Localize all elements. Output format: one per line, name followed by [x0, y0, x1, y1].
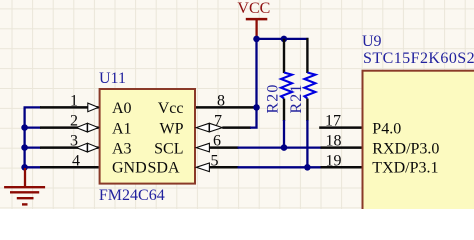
junction node: ground tap on left bus pin 2 — [21, 124, 28, 131]
svg-text:A3: A3 — [112, 140, 132, 157]
wire: stub from bus to pin 4 — [25, 166, 41, 168]
wire: vertical from VCC rail down to pin 8 — [255, 39, 257, 108]
svg-text:STC15F2K60S2: STC15F2K60S2 — [363, 50, 474, 67]
wire: stub from bus to pin 2 — [25, 126, 41, 128]
pin 7 (WP) of U11 — [196, 123, 209, 132]
svg-text:4: 4 — [72, 152, 80, 169]
svg-text:2: 2 — [70, 113, 78, 130]
svg-text:A1: A1 — [112, 120, 132, 137]
wire: left vertical bus from pin 1 row down to ground node — [23, 107, 25, 167]
svg-text:U9: U9 — [362, 33, 382, 50]
IC U11 body FM24C64 — [100, 89, 195, 184]
svg-text:3: 3 — [70, 133, 78, 150]
svg-text:RXD/P3.0: RXD/P3.0 — [372, 140, 439, 157]
svg-text:SCL: SCL — [154, 140, 183, 157]
svg-text:17: 17 — [325, 113, 341, 130]
wire: R21 bottom to SDA net — [306, 120, 308, 167]
IC U9 body STC15F2K60S2 — [363, 71, 474, 216]
svg-text:5: 5 — [211, 152, 219, 169]
wire: R20 bottom to SCL net — [283, 120, 285, 148]
svg-text:1: 1 — [70, 92, 78, 109]
svg-text:VCC: VCC — [237, 0, 270, 17]
wire: stub from bus to pin 1 — [24, 106, 42, 108]
svg-text:TXD/P3.1: TXD/P3.1 — [372, 160, 438, 177]
junction node: R21 on SDA net — [304, 164, 311, 171]
wire: corner from pin 7 up to pin 8 junction — [250, 107, 257, 127]
svg-text:WP: WP — [160, 120, 184, 137]
svg-text:8: 8 — [217, 92, 225, 109]
svg-text:Vcc: Vcc — [158, 100, 184, 117]
svg-text:SDA: SDA — [147, 160, 179, 177]
svg-text:18: 18 — [326, 133, 342, 150]
wire: SDA net from pin 5 to U9 pin 19 — [238, 166, 322, 168]
ground symbol — [24, 168, 26, 187]
svg-text:R20: R20 — [264, 84, 281, 114]
junction node: left bus pin 4 / ground — [21, 164, 28, 171]
svg-text:6: 6 — [213, 133, 221, 150]
wire: SCL net from pin 6 to U9 pin 18 — [238, 146, 322, 148]
pin 4 (GND) of U11 — [40, 166, 99, 169]
resistor R21 — [306, 38, 308, 73]
svg-text:FM24C64: FM24C64 — [99, 187, 165, 204]
pin 19 (TXD/P3.1) of U9 — [321, 166, 362, 169]
pin 17 (P4.0) of U9 — [319, 126, 361, 129]
pin 8 (Vcc) of U11 — [196, 106, 254, 109]
junction node: R20 on SCL net — [281, 144, 288, 151]
svg-text:U11: U11 — [99, 70, 126, 87]
junction node: VCC stem — [253, 36, 260, 43]
svg-text:GND: GND — [112, 160, 147, 177]
pin 2 (A1) of U11 — [40, 126, 99, 129]
svg-text:A0: A0 — [112, 100, 132, 117]
resistor R20 — [283, 39, 285, 73]
junction node: left bus pin 3 — [21, 144, 28, 151]
svg-text:P4.0: P4.0 — [372, 120, 401, 137]
svg-text:R21: R21 — [288, 84, 305, 114]
pin 1 (A0) of U11 — [40, 106, 99, 109]
svg-text:7: 7 — [214, 113, 222, 130]
junction node: pin 8 / VCC vertical — [253, 104, 260, 111]
pin 6 (SCL) of U11 — [196, 143, 209, 152]
junction node: R20 top — [281, 36, 288, 43]
wire: VCC rail horizontal to resistor tops — [257, 38, 309, 40]
wire: stub from bus to pin 3 — [25, 146, 41, 148]
pin 18 (RXD/P3.0) of U9 — [321, 146, 362, 149]
svg-text:19: 19 — [326, 152, 342, 169]
pin 3 (A3) of U11 — [40, 146, 99, 149]
pin 5 (SDA) of U11 — [196, 163, 209, 172]
